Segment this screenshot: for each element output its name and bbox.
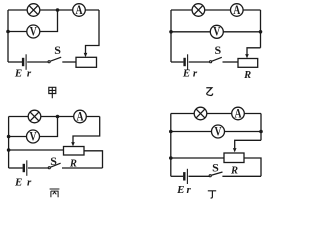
svg-text:S: S [54, 43, 61, 57]
node junction V-right 丁 [259, 130, 263, 134]
rheostat rect R 乙 [238, 59, 258, 68]
node junction top 甲 [56, 8, 60, 12]
lamp L 甲 [27, 4, 40, 17]
wire bottom left segment 丁 [171, 175, 183, 177]
rheostat rect 甲 [76, 57, 97, 67]
label 丁 [208, 191, 216, 198]
svg-text:R: R [230, 166, 238, 177]
voltmeter V 丁 [212, 125, 225, 138]
wire voltmeter rail 乙 [171, 31, 261, 33]
svg-text:r: r [186, 184, 191, 196]
svg-text:E: E [14, 68, 22, 80]
wire voltmeter branch 甲 [8, 10, 58, 32]
label 甲 [49, 87, 56, 98]
slider arrow 甲 [84, 53, 88, 57]
battery cell 甲 [22, 58, 24, 66]
slider arrow 丙 [71, 142, 75, 146]
wire rheostat right to bottom 丁 [244, 158, 261, 176]
wire ammeter to slider 丙 [73, 117, 100, 143]
wire ammeter to slider 甲 [86, 10, 100, 53]
lamp L 丙 [28, 110, 41, 123]
svg-text:V: V [29, 130, 37, 144]
wire bottom left segment 丙 [9, 167, 23, 169]
wire switch to rheostat 乙 [223, 61, 239, 63]
wire bottom left segment 乙 [171, 61, 183, 63]
battery cell 乙 [183, 58, 185, 66]
wire top rail 甲 [8, 9, 99, 11]
node junction V-left 丁 [169, 130, 173, 134]
node junction left 甲 [6, 30, 10, 34]
battery cell 丙 [23, 164, 25, 172]
node junction mid-left 丁 [169, 156, 173, 160]
svg-text:r: r [193, 68, 198, 80]
wire battery to switch 甲 [27, 61, 48, 63]
wire switch to rheostat 甲 [62, 61, 76, 63]
svg-text:E: E [176, 184, 184, 196]
rheostat rect R 丙 [64, 147, 85, 156]
svg-text:S: S [50, 154, 57, 168]
node junction V-left 乙 [169, 30, 173, 34]
wire top rail 丁 [171, 113, 261, 115]
wire left vertical 丁 [170, 114, 172, 177]
voltmeter V 乙 [210, 25, 223, 38]
wire battery to switch 丁 [189, 175, 210, 177]
svg-text:r: r [27, 68, 32, 80]
wire left vertical 丙 [8, 117, 10, 169]
svg-text:A: A [234, 107, 242, 121]
switch S 乙 [210, 61, 212, 63]
wire left vertical 甲 [7, 10, 9, 62]
wire right vertical upper 丁 [260, 114, 262, 141]
svg-text:R: R [243, 70, 251, 81]
wire voltmeter branch 丙 [9, 117, 58, 137]
svg-text:E: E [14, 177, 22, 189]
voltmeter V 甲 [27, 25, 40, 38]
slider arrow 丁 [233, 148, 237, 152]
voltmeter V 丙 [27, 130, 40, 143]
svg-text:A: A [233, 4, 241, 18]
wire right vertical 乙 [260, 10, 262, 48]
ammeter A 丙 [74, 110, 87, 123]
svg-text:V: V [214, 125, 222, 139]
switch S 丙 [48, 167, 50, 169]
svg-text:A: A [76, 110, 84, 124]
wire right vertical to slider 乙 [247, 48, 261, 55]
wire switch to bottom right 丙 [62, 167, 103, 169]
wire battery to switch 乙 [189, 61, 210, 63]
svg-text:V: V [213, 26, 221, 40]
svg-text:S: S [214, 43, 221, 57]
wire switch to bottom right 丁 [222, 175, 261, 177]
svg-text:r: r [27, 177, 32, 189]
ammeter A 甲 [73, 4, 86, 17]
wire bottom left segment 甲 [8, 61, 22, 63]
node junction V-left 丙 [7, 135, 11, 139]
ammeter A 乙 [231, 4, 244, 17]
wire rheostat right to bottom 丙 [84, 151, 103, 168]
wire battery to switch 丙 [28, 167, 48, 169]
rheostat rect R 丁 [224, 153, 244, 163]
wire left vertical 乙 [170, 10, 172, 62]
svg-text:S: S [212, 160, 219, 174]
wire mid rail 丙 [9, 149, 64, 151]
slider arrow 乙 [245, 54, 249, 58]
lamp L 丁 [194, 107, 207, 120]
battery cell 丁 [183, 172, 185, 180]
switch S 丁 [209, 175, 211, 177]
wire top rail 丙 [9, 116, 100, 118]
wire mid rail 丁 [171, 157, 224, 159]
lamp L 乙 [192, 4, 205, 17]
svg-text:V: V [30, 25, 38, 39]
svg-text:E: E [182, 68, 190, 80]
wire voltmeter rail 丁 [171, 131, 261, 133]
node junction V-right 乙 [259, 30, 263, 34]
node junction top 丙 [56, 115, 60, 119]
switch S 甲 [48, 61, 50, 63]
svg-text:R: R [69, 158, 77, 169]
label 乙 [206, 88, 212, 96]
label 丙 [50, 189, 60, 197]
ammeter A 丁 [232, 107, 245, 120]
svg-text:A: A [75, 4, 83, 18]
wire right vertical to slider 丁 [235, 140, 261, 148]
wire top rail 乙 [171, 9, 261, 11]
node junction mid-left 丙 [7, 148, 11, 152]
